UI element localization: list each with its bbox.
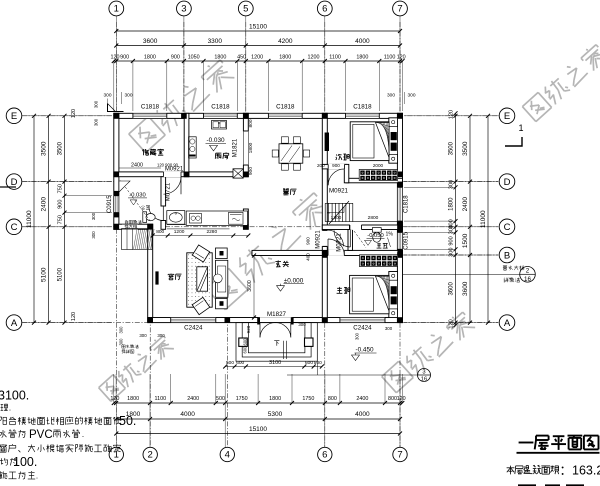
window C0915 west wall: [113, 196, 119, 213]
sofa rug with diagonals: [197, 267, 208, 291]
svg-text:3600: 3600: [247, 280, 253, 292]
left dimension chain axis spans: [48, 116, 50, 323]
svg-text:400: 400: [306, 253, 311, 261]
detail marker 2/16 with leader: [403, 273, 520, 275]
svg-text:.: .: [117, 445, 119, 454]
door M1827 entry south double: [259, 317, 293, 323]
svg-text:16: 16: [421, 377, 427, 383]
svg-text:-0.450: -0.450: [355, 347, 374, 354]
svg-text:A: A: [11, 318, 18, 329]
svg-text:C0915: C0915: [107, 195, 113, 213]
axis 6 wall upper (dining/bedroom2): [322, 113, 327, 164]
svg-text:120: 120: [449, 319, 455, 328]
svg-text:C1818: C1818: [404, 195, 410, 213]
porch pier left: [239, 338, 248, 346]
top-left corner return detail: [108, 104, 124, 112]
watermark bottom-right: [382, 361, 414, 392]
axis line C horizontal: [22, 226, 114, 228]
svg-text:-0.030: -0.030: [206, 137, 225, 144]
axis line E horizontal: [22, 115, 498, 117]
svg-text:1050: 1050: [188, 55, 200, 61]
window C1818 north #4: [346, 113, 380, 119]
door M0721 master bath: [350, 225, 362, 230]
watermark bottom-left: [99, 375, 126, 402]
stair break line: [329, 201, 349, 224]
right dimension chain mid: [469, 116, 471, 323]
svg-text:300: 300: [139, 333, 147, 338]
bedroom2 wardrobe: [359, 170, 397, 181]
interior dim entry 3600 vertical: [253, 256, 255, 318]
axis bubble D left: [6, 174, 22, 190]
master bed body: [350, 275, 389, 313]
axis bubble 3 top: [177, 1, 192, 16]
axis bubble E right: [499, 108, 515, 124]
bedroom2 bed headboard and nightstands: [389, 118, 398, 163]
svg-text:1800: 1800: [269, 396, 281, 402]
svg-text:C: C: [504, 222, 511, 233]
left dimension chain detail: [64, 116, 66, 323]
svg-text:5100: 5100: [41, 267, 48, 282]
svg-text:120: 120: [397, 396, 406, 402]
door M0921 lobby west: [322, 231, 328, 247]
title 一层平面图: [519, 442, 534, 444]
bedroom2 wall connector: [344, 164, 349, 182]
svg-text:300: 300: [157, 333, 165, 338]
bedroom2 bed blanket hatched: [376, 123, 390, 158]
svg-text:300: 300: [103, 93, 111, 99]
top dimension extension lines: [113, 61, 115, 111]
svg-text:450: 450: [237, 55, 246, 61]
kitchen sink: [212, 121, 227, 130]
svg-text:E: E: [11, 111, 17, 122]
detail marker 3/16 with leader: [287, 374, 418, 376]
svg-text:300: 300: [449, 225, 455, 234]
door M0921 bedroom2: [328, 164, 344, 169]
svg-text:120: 120: [111, 55, 120, 61]
svg-text:300: 300: [91, 212, 96, 220]
porch dimension row: [225, 366, 322, 368]
svg-text:M0921: M0921: [316, 230, 322, 249]
bottom dimension chain detail: [114, 402, 403, 404]
svg-text:4000: 4000: [355, 38, 370, 45]
svg-text:1: 1: [114, 4, 119, 15]
washbasin: [167, 211, 185, 225]
master bath west wall: [348, 230, 353, 251]
left dimension chain overall 11000: [33, 116, 35, 323]
axis line 2 vertical: [149, 318, 151, 447]
window C1818 north #3: [268, 113, 302, 119]
axis line D horizontal: [22, 181, 114, 183]
svg-text:±0.000: ±0.000: [284, 277, 304, 284]
washing machine: [229, 212, 244, 224]
svg-text:600: 600: [236, 360, 244, 366]
svg-text:300: 300: [298, 322, 306, 327]
bathroom corner shelf: [119, 181, 130, 192]
opening M1821 kitchen east wall: [243, 131, 249, 165]
svg-text:16: 16: [524, 276, 531, 283]
bottom dimension chain overall 15100: [116, 433, 400, 435]
svg-text:4200: 4200: [278, 38, 293, 45]
svg-text:300: 300: [119, 338, 124, 346]
stair direction line: [327, 212, 344, 214]
svg-text:3600: 3600: [449, 281, 455, 295]
svg-text:PVC: PVC: [29, 429, 53, 441]
dining chair left: [272, 150, 278, 157]
svg-text:3600: 3600: [143, 38, 158, 45]
svg-text:C1818: C1818: [353, 104, 372, 111]
construction column pads: [114, 113, 120, 119]
svg-text:900: 900: [120, 55, 129, 61]
svg-text:C2424: C2424: [184, 325, 203, 332]
room label kitchen 厨房: [216, 152, 222, 154]
door M0921 storage south wall: [164, 172, 182, 178]
svg-text:800: 800: [328, 396, 337, 402]
axis bubble 2 bottom: [143, 447, 157, 461]
master bath shower dashes: [354, 231, 366, 248]
interior dim master bath 3600 vertical: [329, 256, 331, 318]
svg-text:1%: 1%: [386, 231, 394, 237]
svg-text:.: .: [36, 472, 38, 481]
right dimension extension lines: [404, 115, 499, 117]
svg-text:500: 500: [226, 360, 234, 366]
west exterior wall: [114, 113, 119, 229]
dining table: [279, 144, 303, 163]
svg-text:300: 300: [124, 93, 132, 99]
room label master 主卧: [338, 286, 341, 289]
porch leader to marker 3/16: [316, 361, 318, 375]
axis bubble 5 top: [238, 1, 253, 16]
master bath north wall east part: [362, 225, 403, 230]
svg-text:C2424: C2424: [353, 325, 372, 332]
bottom dimension chain mid: [116, 418, 400, 420]
note line 5: [2, 443, 4, 445]
svg-text:900: 900: [332, 163, 340, 168]
east exterior wall: [397, 113, 402, 322]
svg-text:120: 120: [110, 396, 119, 402]
svg-text:1200: 1200: [308, 55, 320, 61]
svg-text:1800: 1800: [144, 55, 156, 61]
room label master bath 主卫: [378, 242, 381, 245]
bottom dimension extension lines: [113, 374, 115, 403]
interior dim 800/1200/2280 corridor: [153, 235, 249, 237]
west wall pier stubs: [114, 191, 119, 196]
svg-text:1800: 1800: [356, 55, 368, 61]
axis line 3 vertical: [183, 22, 185, 118]
svg-text:2: 2: [526, 267, 530, 274]
svg-text:1750: 1750: [302, 396, 314, 402]
master bed blanket hatched: [376, 276, 390, 311]
svg-text:M0721: M0721: [166, 182, 172, 201]
axis bubble E left: [6, 108, 22, 124]
sofa corner chair top: [192, 245, 209, 262]
armchair bottom-right: [216, 298, 228, 308]
svg-text:2000: 2000: [373, 163, 384, 168]
porch down label: [274, 340, 279, 342]
svg-text:M1821: M1821: [233, 138, 239, 157]
svg-text:1800: 1800: [449, 197, 455, 211]
svg-text:300: 300: [94, 100, 99, 108]
svg-text:C1818: C1818: [276, 104, 295, 111]
svg-text:E: E: [504, 111, 510, 122]
svg-text:5: 5: [243, 4, 248, 15]
north exterior wall: [114, 113, 403, 118]
kitchen stove: [189, 137, 197, 158]
svg-text:6: 6: [322, 4, 327, 15]
svg-text:1200: 1200: [251, 55, 263, 61]
title underline: [517, 452, 600, 454]
svg-text:3500: 3500: [462, 141, 469, 156]
axis bubble C right: [499, 219, 515, 235]
svg-text:100.: 100.: [13, 455, 37, 469]
svg-text:、: 、: [18, 444, 27, 454]
svg-text:.: .: [82, 430, 84, 439]
svg-text:1800: 1800: [279, 55, 291, 61]
bedroom2 bed body: [350, 122, 389, 161]
svg-text:2400: 2400: [187, 396, 199, 402]
svg-text:1100: 1100: [384, 55, 396, 61]
svg-text:300: 300: [407, 93, 415, 99]
kitchen west wall on axis 3: [184, 113, 189, 176]
living west wall tv mark: [155, 271, 158, 284]
side table round: [213, 274, 222, 283]
axis line 4 vertical: [226, 318, 228, 447]
svg-text:300: 300: [387, 93, 395, 99]
master bed headboard and nightstands: [389, 272, 398, 318]
axis bubble 6 bottom: [318, 447, 332, 461]
svg-text:2400: 2400: [41, 197, 48, 212]
corridor counter: [186, 211, 247, 225]
svg-text:750: 750: [58, 215, 64, 224]
svg-text:3300: 3300: [208, 38, 223, 45]
svg-text:C1818: C1818: [141, 104, 160, 111]
svg-text:D: D: [504, 177, 511, 188]
svg-text:M0921: M0921: [329, 188, 348, 195]
axis bubble 7 bottom: [393, 447, 407, 461]
svg-text:C: C: [11, 222, 18, 233]
axis bubble 7 top: [393, 1, 408, 16]
right dimension chain overall 11000: [487, 116, 489, 323]
watermark top-right: [522, 92, 551, 121]
svg-text:C0915: C0915: [404, 231, 410, 249]
svg-text:2800: 2800: [368, 215, 379, 221]
axis line A horizontal: [22, 322, 147, 324]
bedroom2 south wall east part: [346, 178, 403, 183]
tv cabinet right: [216, 260, 228, 297]
svg-text:120: 120: [71, 109, 77, 118]
entry porch steps: [236, 323, 317, 362]
svg-text:300: 300: [119, 326, 124, 334]
svg-text:920: 920: [246, 325, 251, 333]
corridor east wall segment: [243, 209, 248, 229]
svg-text:300: 300: [91, 231, 96, 239]
axis bubble B right: [499, 247, 515, 263]
axis C dash segment through dining: [165, 226, 322, 228]
axis 6 wall entry/master: [322, 256, 327, 323]
window C1818 north #2: [204, 113, 238, 119]
svg-text:2400: 2400: [131, 162, 143, 168]
note line 4: [2, 430, 4, 436]
svg-text:1800: 1800: [214, 55, 226, 61]
svg-text:M1827: M1827: [267, 311, 286, 318]
svg-text:5300: 5300: [268, 411, 283, 418]
porch pier right: [305, 338, 314, 346]
window C2424 south-west: [171, 317, 216, 323]
svg-text:7: 7: [397, 4, 402, 15]
exterior ramp north-west of living: [122, 229, 153, 250]
ramp note tiny text: [124, 220, 127, 221]
entry hall north wall on axis B: [252, 250, 327, 255]
svg-text:2280: 2280: [206, 229, 217, 235]
svg-text:4000: 4000: [180, 411, 195, 418]
svg-text:2400: 2400: [356, 396, 368, 402]
axis bubble 6 top: [317, 1, 332, 16]
axis 6 wall lower stub: [322, 247, 327, 251]
svg-text:11000: 11000: [480, 210, 487, 228]
master bath toilet: [372, 228, 381, 233]
svg-text:900: 900: [171, 55, 180, 61]
dining chairs bottom: [282, 164, 289, 170]
armchair top-right: [216, 248, 228, 259]
svg-text:300: 300: [355, 332, 360, 340]
svg-text:900: 900: [58, 200, 64, 209]
svg-text:-0.030: -0.030: [129, 193, 145, 199]
svg-text:1750: 1750: [236, 396, 248, 402]
south exterior wall: [148, 318, 403, 323]
cut text row at bottom edge: [518, 484, 536, 486]
svg-text:3600: 3600: [462, 281, 469, 296]
counter sink: [190, 214, 202, 224]
note line 6: [0, 458, 2, 464]
svg-text:120: 120: [397, 55, 406, 61]
south-west jog wall on axis C: [114, 224, 153, 229]
note line 2: [1, 403, 4, 405]
svg-text:300: 300: [449, 180, 455, 189]
living room west wall on axis 2: [148, 224, 153, 322]
east wall pier stubs: [397, 182, 402, 188]
opening exterior door in C-wall: [122, 224, 138, 230]
svg-text:2400: 2400: [462, 197, 469, 212]
axis bubble A left: [6, 315, 22, 331]
svg-text:300: 300: [94, 118, 99, 126]
axis line 7 vertical: [399, 22, 401, 447]
note line 7: [0, 471, 1, 472]
svg-text:1500: 1500: [462, 233, 469, 248]
room label bedroom2 次卧: [335, 154, 338, 155]
axis bubble A right: [499, 315, 515, 331]
bathroom east wall: [161, 177, 166, 206]
svg-text:600: 600: [305, 360, 313, 366]
svg-text:D: D: [11, 177, 18, 188]
svg-text:6: 6: [322, 450, 327, 461]
master bath north wall: [322, 225, 349, 230]
bedroom2 south wall west part: [322, 164, 346, 169]
svg-text:B: B: [504, 250, 510, 261]
svg-text:900: 900: [449, 236, 455, 245]
svg-text:900: 900: [306, 237, 311, 245]
storage and kitchen south wall: [114, 172, 249, 177]
svg-text:1100: 1100: [329, 55, 341, 61]
window C0915 east wall: [397, 232, 403, 249]
apron tiny note near porch: [122, 344, 125, 346]
window C1818 east wall: [397, 187, 403, 221]
svg-text:5100: 5100: [58, 267, 64, 281]
axis bubble 1 bottom: [109, 447, 123, 461]
section cut stub left: [0, 186, 16, 188]
window C2424 south-east: [340, 317, 385, 323]
svg-text:A: A: [504, 318, 511, 329]
svg-text:1800: 1800: [248, 142, 254, 153]
svg-text:1200: 1200: [174, 229, 185, 235]
top dimension chain detail: [114, 60, 403, 62]
svg-text:3500: 3500: [41, 141, 48, 156]
svg-text:1200: 1200: [331, 215, 342, 221]
svg-text:1800: 1800: [127, 396, 139, 402]
dining chairs top: [282, 137, 289, 143]
top dimension chain axis spans: [116, 45, 400, 47]
svg-text:600: 600: [242, 346, 247, 354]
axis line 1 vertical: [115, 22, 117, 447]
left dimension extension lines: [23, 115, 113, 117]
svg-text:3500: 3500: [449, 141, 455, 155]
room label storage 储藏室: [142, 149, 145, 151]
svg-text:1100: 1100: [155, 396, 167, 402]
svg-text:15100: 15100: [249, 426, 267, 433]
dining side black mark on axis6 wall: [325, 133, 329, 152]
room label dining 餐厅: [283, 188, 284, 190]
axis line B horizontal: [402, 254, 498, 256]
right dimension chain detail: [455, 113, 457, 325]
svg-text:800: 800: [248, 119, 254, 127]
svg-text:120: 120: [449, 110, 455, 119]
svg-text:2: 2: [148, 450, 153, 461]
dining chair right: [303, 150, 309, 157]
svg-text:1: 1: [518, 123, 523, 133]
bathroom east wall stub: [161, 221, 166, 230]
stairs: [325, 202, 353, 204]
bathroom toilet: [143, 212, 147, 223]
bathroom shower dashed line: [121, 181, 151, 222]
note line 3: [0, 416, 2, 418]
axis 6 wall mid (hall/lobby): [322, 165, 327, 231]
svg-text:120: 120: [71, 312, 77, 321]
svg-text:：163.2: ：163.2: [560, 464, 600, 478]
kitchen flue box: [233, 169, 243, 178]
top dimension chain overall 15100: [116, 30, 400, 32]
axis bubble 1 top: [109, 1, 124, 16]
svg-text:4: 4: [225, 450, 230, 461]
svg-text:300: 300: [449, 248, 455, 257]
svg-text:500: 500: [216, 396, 225, 402]
svg-text:900: 900: [248, 167, 254, 175]
svg-text:800: 800: [156, 229, 164, 235]
axis bubble 4 bottom: [220, 447, 234, 461]
kitchen east wall upper segment: [243, 113, 248, 131]
floor area note: [507, 467, 515, 469]
room label entry 玄关: [277, 260, 280, 263]
axis bubble C left: [6, 219, 22, 235]
door M0921 entry to master: [328, 250, 344, 256]
svg-text:3100.: 3100.: [0, 389, 29, 403]
master suite north wall on axis B: [322, 250, 402, 255]
svg-text:50.: 50.: [119, 414, 136, 428]
axis bubble D right: [499, 174, 515, 190]
watermark center: [206, 268, 247, 309]
svg-text:4000: 4000: [355, 411, 370, 418]
svg-text:120 900 90: 120 900 90: [157, 162, 179, 167]
svg-text:11000: 11000: [26, 210, 33, 228]
svg-text:M0721: M0721: [337, 233, 343, 252]
svg-text:300: 300: [385, 326, 393, 331]
